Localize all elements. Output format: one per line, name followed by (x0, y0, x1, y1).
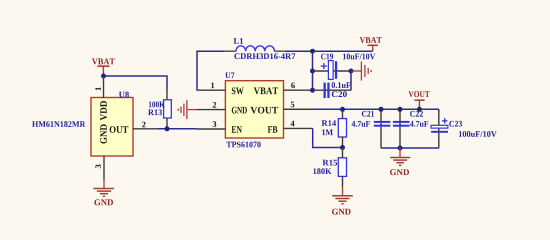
R15 top lead (342, 148, 344, 158)
wire vertical branch C19/C20 (312, 51, 314, 90)
junction node FB / R14 / R15 (340, 145, 345, 150)
U7 pin 5 stub (284, 108, 313, 110)
U7 pin 3 stub (197, 128, 226, 130)
wire VOUT rail (313, 108, 439, 110)
U7 part label TPS61070 (226, 142, 260, 148)
U7 pin names row 3: EN / FB (232, 126, 242, 133)
junction node C20 left / pin6 (310, 88, 315, 93)
R15 value label (313, 168, 331, 174)
wire SW net: U7 pin1 up and across top rail (197, 51, 225, 90)
capacitor C21 (374, 109, 391, 148)
junction node C19 right (349, 69, 354, 74)
resistor R15 body (338, 158, 346, 177)
R14 value label (322, 129, 333, 135)
wire top rail L1 to VBAT (285, 50, 373, 52)
R14 designator label (322, 120, 336, 126)
C20 value label (332, 82, 351, 88)
junction node C21 top (379, 107, 384, 112)
junction node R14 top / VOUT rail (340, 107, 345, 112)
capacitor C22 (393, 109, 410, 148)
sideways ground symbol right of C19 (351, 62, 371, 81)
U7 pin names row 2: GND / VOUT (232, 107, 247, 114)
U7 pin 2 stub (197, 109, 225, 111)
wire bottom rail C21-C23 (381, 147, 439, 149)
wire FB net (313, 128, 343, 147)
R15 designator label (323, 160, 338, 166)
wire C19 right down to C20 right (350, 71, 352, 90)
junction node C22 top (398, 107, 403, 112)
L1 value label CDRH3D16-4R7 (234, 53, 295, 59)
junction node bottom rail / gnd (398, 146, 403, 151)
pin 3 of U8 (GND, bottom) (103, 156, 105, 180)
C21 value label (352, 121, 370, 127)
U7 pin 6 stub (284, 89, 313, 91)
R14 top lead (342, 109, 344, 118)
ground symbol below C22 (390, 148, 410, 165)
pin 1 of U8 (VDD, top) (103, 76, 105, 98)
junction node top rail / C19 branch (310, 49, 315, 54)
U8 part label HM61N182MR (32, 121, 85, 127)
wire VBAT node to R13 top (104, 76, 168, 90)
U8 pin name VDD (rotated) (100, 101, 107, 120)
R13 bottom lead (166, 118, 168, 129)
R14 bottom lead (342, 137, 344, 148)
U7 pin 4 stub (284, 127, 313, 129)
ground symbol below R15 (332, 187, 353, 204)
junction node VOUT / rail (417, 107, 422, 112)
power port VBAT (top right) (360, 37, 382, 51)
power port VBAT (left, above U8) (92, 58, 115, 76)
C22 value label (410, 121, 428, 127)
C19 value label (343, 54, 375, 60)
junction node at VBAT / U8 pin 1 (101, 74, 106, 79)
power port VOUT (408, 91, 429, 109)
inductor L1 humps (236, 46, 274, 51)
U8 pin name OUT (110, 126, 129, 133)
resistor R13 body (164, 100, 172, 118)
capacitor C20 (313, 83, 352, 98)
C21 designator label (362, 111, 374, 117)
capacitor C19 (polarized) (313, 61, 352, 80)
R13 designator label (148, 109, 162, 115)
IC U7 body (225, 81, 283, 138)
pin 2 of U8 (OUT, right) (133, 128, 157, 130)
U7 pin 1 stub (197, 89, 226, 91)
C23 value label (459, 131, 497, 137)
sideways ground symbol at U7 pin 2 (178, 100, 197, 119)
wire EN net: U8 OUT to U7 EN (157, 128, 196, 130)
R15 bottom lead (342, 176, 344, 187)
U7 designator label (225, 72, 234, 78)
C20 designator label (332, 91, 347, 97)
U8 designator label (119, 92, 129, 98)
inductor L1 right lead (274, 50, 284, 52)
ground symbol below U8 (93, 180, 114, 197)
capacitor C23 (polarized) (431, 109, 448, 148)
junction node C19 left (310, 69, 315, 74)
C19 designator label (321, 54, 333, 60)
U7 pin names row 1: SW / VBAT (232, 87, 244, 94)
L1 designator label (234, 38, 243, 44)
inductor L1 left lead (225, 50, 237, 52)
C23 designator label (449, 121, 462, 127)
resistor R14 body (338, 119, 346, 137)
U8 pin name GND (rotated) (100, 124, 107, 143)
junction node R13 / EN wire (165, 126, 170, 131)
IC U8 body (91, 98, 133, 157)
C22 designator label (410, 111, 423, 117)
R13 value label (149, 101, 165, 107)
